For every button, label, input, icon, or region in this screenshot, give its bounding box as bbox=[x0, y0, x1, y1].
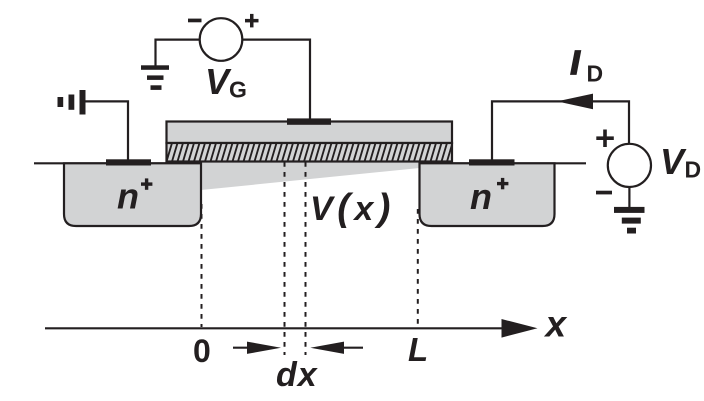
ground (VD return) bbox=[614, 207, 645, 234]
polarity minus (VG) bbox=[188, 19, 202, 23]
svg-text:D: D bbox=[685, 157, 702, 183]
svg-text:0: 0 bbox=[193, 333, 211, 369]
dx arrow right bbox=[233, 342, 281, 354]
gate contact bbox=[287, 118, 331, 124]
source contact bbox=[106, 159, 151, 165]
svg-text:L: L bbox=[408, 331, 428, 368]
svg-text:G: G bbox=[229, 77, 247, 103]
current arrow ID bbox=[557, 94, 593, 110]
polarity plus (VD) bbox=[596, 130, 614, 148]
x axis line bbox=[45, 327, 503, 329]
ground (bulk, sideways) bbox=[58, 90, 86, 115]
wire: VG right lead to gate contact bbox=[242, 40, 310, 119]
ground (VG return) bbox=[141, 65, 169, 90]
gate electrode (gray bar) bbox=[167, 122, 453, 144]
svg-text:V(x): V(x) bbox=[310, 187, 395, 229]
svg-text:V: V bbox=[205, 61, 232, 102]
wire: VD to ground bbox=[628, 187, 630, 208]
voltage source VG bbox=[200, 18, 243, 61]
node dx-left: dashed construction line bbox=[284, 162, 286, 355]
polarity plus (VG) bbox=[245, 14, 259, 28]
wire: VG left lead to ground bbox=[156, 40, 200, 66]
svg-text:x: x bbox=[544, 304, 568, 345]
polarity minus (VD) bbox=[596, 191, 612, 195]
gate oxide (hatched bar) bbox=[167, 143, 453, 162]
svg-text:n: n bbox=[470, 176, 492, 217]
svg-text:n: n bbox=[117, 176, 139, 217]
n+ source diffusion region bbox=[64, 163, 201, 226]
channel: tapered inversion layer under gate bbox=[201, 161, 420, 190]
node L: dashed construction line at x=L bbox=[417, 209, 419, 327]
x axis arrowhead bbox=[502, 319, 538, 338]
node dx-right: dashed construction line bbox=[305, 162, 307, 355]
wire: bulk to source contact bbox=[85, 101, 128, 160]
drain contact bbox=[469, 159, 515, 165]
svg-text:D: D bbox=[587, 61, 604, 87]
voltage source VD bbox=[608, 144, 651, 187]
svg-text:V: V bbox=[660, 141, 687, 182]
wire: drain contact up and across to VD bbox=[492, 101, 629, 160]
svg-text:dx: dx bbox=[276, 356, 319, 394]
n+ drain diffusion region bbox=[420, 163, 555, 226]
dx arrow left bbox=[310, 342, 363, 354]
svg-text:I: I bbox=[571, 44, 581, 81]
node 0: dashed construction line at x=0 bbox=[201, 204, 203, 327]
wire: substrate surface line bbox=[34, 162, 586, 164]
